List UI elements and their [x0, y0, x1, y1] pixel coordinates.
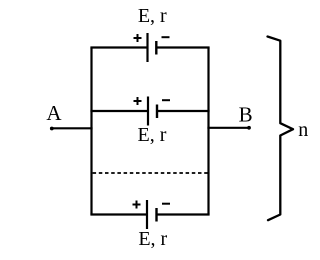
- minus label cell 2: [162, 99, 170, 101]
- svg-text:A: A: [46, 101, 62, 125]
- wire bottom branch left: [90, 213, 147, 215]
- svg-text:E, r: E, r: [138, 5, 167, 27]
- wire top branch right: [156, 46, 209, 48]
- svg-text:B: B: [239, 102, 253, 126]
- wire right rail: [207, 48, 209, 215]
- plus label cell 2: [134, 97, 142, 105]
- battery cell 1 negative plate: [155, 41, 157, 55]
- svg-text:E, r: E, r: [138, 124, 167, 146]
- node A terminal wire: [52, 127, 93, 129]
- wire bottom branch right: [157, 213, 210, 215]
- plus label cell 3: [133, 201, 141, 209]
- wire middle branch right: [157, 110, 210, 112]
- brace for n cells: [268, 37, 294, 221]
- battery cell 3 negative plate: [155, 208, 157, 222]
- node A terminal dot: [50, 127, 54, 131]
- battery cell 3 positive plate: [146, 200, 148, 229]
- wire top branch left: [90, 46, 147, 48]
- wire left rail: [90, 48, 92, 215]
- svg-text:n: n: [298, 119, 308, 141]
- battery cell 2 positive plate: [147, 97, 149, 126]
- plus label cell 1: [134, 34, 142, 42]
- dashed line (continuation dots): [93, 172, 209, 174]
- battery cell 1 positive plate: [146, 33, 148, 62]
- node B terminal dot: [247, 126, 251, 130]
- svg-text:E, r: E, r: [138, 228, 167, 250]
- wire middle branch left: [90, 110, 148, 112]
- minus label cell 3: [162, 203, 170, 205]
- battery cell 2 negative plate: [156, 105, 158, 119]
- node B terminal wire: [207, 127, 249, 129]
- minus label cell 1: [162, 36, 170, 38]
